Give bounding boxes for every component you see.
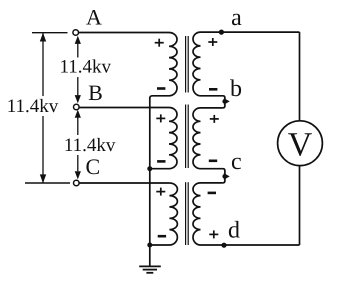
tick at A level xyxy=(32,32,68,34)
polarity marks primary T3 xyxy=(156,188,165,196)
arrow up to A (dimension A-B) xyxy=(75,36,81,58)
node c marker xyxy=(222,173,229,180)
svg-text:V: V xyxy=(288,127,313,164)
core T1 xyxy=(186,36,189,93)
primary winding T1 xyxy=(150,33,177,99)
primary winding T3 xyxy=(150,183,178,245)
svg-text:C: C xyxy=(85,154,100,179)
value 11.4kv upper (A-B) xyxy=(57,56,114,77)
value 11.4kv left (A-C) xyxy=(5,96,60,117)
polarity marks primary T1 xyxy=(155,39,164,47)
secondary winding T1 + wire to a xyxy=(193,32,300,108)
wire C to primary 3 xyxy=(79,182,169,184)
wire B to primary 2 xyxy=(79,107,169,109)
primary winding T2 xyxy=(150,108,177,169)
node b marker xyxy=(222,98,229,105)
right wire top to voltmeter xyxy=(299,32,301,121)
polarity marks secondary T2 xyxy=(210,115,219,123)
svg-text:B: B xyxy=(88,80,103,105)
svg-text:c: c xyxy=(231,149,242,175)
node a dot xyxy=(219,29,224,34)
svg-text:d: d xyxy=(228,217,240,243)
svg-text:11.4kv: 11.4kv xyxy=(7,96,59,117)
polarity marks secondary T1 xyxy=(208,38,217,46)
node d dot xyxy=(221,243,226,248)
svg-text:11.4kv: 11.4kv xyxy=(64,135,116,156)
tick at C level xyxy=(25,182,70,184)
secondary winding T2 xyxy=(193,108,225,183)
arrow down to B (dimension A-B) xyxy=(75,77,81,103)
svg-text:A: A xyxy=(86,5,102,30)
junction dot primary3/bus xyxy=(147,243,152,248)
right wire voltmeter to bottom xyxy=(299,166,301,245)
terminal C xyxy=(74,180,80,186)
core T3 xyxy=(186,182,189,245)
polarity marks secondary T3 xyxy=(208,192,216,195)
wire A to primary 1 xyxy=(79,32,169,34)
terminal B xyxy=(74,104,80,110)
svg-text:a: a xyxy=(231,5,242,31)
value 11.4kv lower (B-C) xyxy=(62,135,118,156)
arrow down to C (dimension B-C) xyxy=(75,155,81,179)
junction dot primary2/bus xyxy=(147,166,152,171)
dimension line A-C left xyxy=(40,33,46,184)
secondary winding T3 + wire to d xyxy=(193,183,300,245)
ground xyxy=(139,266,161,272)
svg-text:b: b xyxy=(230,76,242,102)
core T2 xyxy=(186,105,189,169)
voltmeter V1 xyxy=(278,121,323,166)
terminal A xyxy=(73,30,79,36)
polarity marks primary T2 xyxy=(156,114,165,122)
ground bus wire xyxy=(149,98,151,266)
svg-text:11.4kv: 11.4kv xyxy=(60,56,112,77)
arrow up to B (dimension B-C) xyxy=(75,110,81,135)
